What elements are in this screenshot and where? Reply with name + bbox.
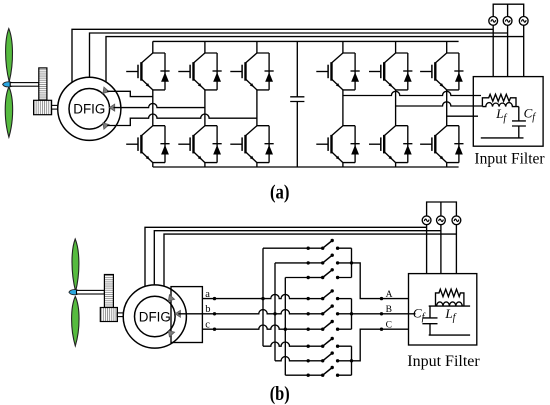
- source star bus (b): [427, 202, 457, 216]
- junction dot a-bus: [261, 297, 264, 300]
- row 9 wire: [285, 374, 351, 376]
- gearbox lower block (b): [100, 308, 117, 322]
- node dot A: [380, 297, 383, 300]
- GSC output wire 2 with hop: [396, 102, 483, 106]
- IGBT Q4: [178, 126, 221, 163]
- switch ScC: [307, 366, 340, 377]
- source feeder 1 (b): [426, 225, 428, 274]
- source feeder 2 (a): [507, 25, 509, 76]
- grid source G3 (a): [519, 17, 528, 26]
- rotor wire 3 with hops (a): [107, 114, 257, 126]
- turbine blade lower (b): [72, 297, 79, 347]
- row 6 right wire: [338, 328, 352, 330]
- switch ScA: [307, 268, 340, 279]
- node dot wire c: [213, 328, 216, 331]
- merge bar group C: [351, 346, 353, 375]
- svg-text:a: a: [205, 289, 210, 300]
- IGBT Q9: [369, 53, 412, 90]
- switch SbA: [307, 254, 340, 265]
- leg 2 wires RSC: [204, 41, 206, 167]
- filter bottom rail (b): [429, 334, 470, 336]
- IGBT Q11: [420, 53, 463, 90]
- svg-text:DFIG: DFIG: [73, 102, 105, 117]
- rotor wire b with hops (b): [178, 310, 308, 314]
- turbine hub (a): [3, 82, 14, 87]
- turbine shaft (b): [77, 290, 105, 294]
- switch SaB: [307, 289, 340, 300]
- input filter box (a): [473, 77, 543, 147]
- node dot C: [380, 328, 383, 331]
- IGBT Q3: [178, 53, 221, 90]
- source feeder 3 (b): [455, 225, 457, 274]
- node dot wire a: [213, 297, 216, 300]
- row 2 wire: [275, 262, 352, 264]
- leg 3 wires RSC: [256, 41, 258, 167]
- junction dot c-bus: [284, 328, 287, 331]
- grid phase wire 1 (a): [72, 29, 493, 82]
- generator shaft (b): [117, 313, 123, 317]
- row 4 right wire: [338, 298, 352, 300]
- filter inductor Lf (a): [482, 103, 518, 107]
- svg-text:B: B: [386, 305, 392, 315]
- grid source G1 (b): [422, 216, 431, 225]
- row 5 right wire: [338, 313, 352, 315]
- turbine shaft (a): [10, 83, 39, 87]
- junction dot merge B: [350, 312, 353, 315]
- leg 5 wires GSC: [395, 41, 397, 167]
- input filter box (b): [409, 274, 477, 345]
- row 8 wire with hop: [275, 357, 352, 361]
- rotor brush arrow 2 (a): [109, 104, 114, 111]
- switch SbB: [307, 304, 340, 315]
- IGBT Q1: [126, 53, 169, 90]
- leg 4 wires GSC: [342, 41, 344, 167]
- DC bus positive rail: [153, 40, 459, 42]
- junction dot merge C: [350, 359, 353, 362]
- svg-text:(a): (a): [270, 182, 290, 204]
- IGBT Q8: [316, 126, 359, 163]
- grid source G1 (a): [489, 17, 498, 26]
- DFIG rotor circle (a): [69, 89, 110, 130]
- IGBT Q6: [230, 126, 273, 163]
- rotor brush arrow 3 (a): [100, 121, 109, 130]
- leg 1 wires RSC: [152, 41, 154, 167]
- GSC output wire 1 with hops: [343, 91, 481, 95]
- DFIG stator circle (b): [123, 285, 186, 348]
- grid phase wire 3 (b): [164, 234, 456, 287]
- turbine blade lower (a): [5, 87, 12, 137]
- svg-text:(b): (b): [270, 383, 290, 405]
- junction dot b-bus: [273, 312, 276, 315]
- node dot B: [380, 312, 383, 315]
- svg-text:Input Filter: Input Filter: [407, 353, 480, 370]
- source feeder 1 (a): [492, 25, 494, 76]
- rotor wire 1 (a): [107, 91, 153, 96]
- filter bottom rail (a): [481, 137, 524, 139]
- rotor brush arrow 1 (b): [166, 295, 175, 304]
- output wire B: [352, 313, 416, 315]
- output wire C: [352, 329, 409, 361]
- source star bus (a): [493, 4, 524, 16]
- output wire A: [352, 263, 409, 299]
- rotor terminal box (b): [171, 287, 202, 343]
- svg-text:C: C: [386, 320, 392, 330]
- row 7 wire with hops: [263, 342, 352, 346]
- row 1 wire: [263, 247, 352, 249]
- node dot wire b: [213, 312, 216, 315]
- DFIG stator circle (a): [58, 77, 121, 140]
- svg-text:DFIG: DFIG: [139, 309, 171, 324]
- rotor brush arrow 3 (b): [166, 328, 175, 337]
- leg 6 wires GSC: [446, 41, 448, 167]
- switch SbC: [307, 351, 340, 362]
- IGBT Q10: [369, 126, 412, 163]
- filter resistor branch (b): [436, 289, 464, 306]
- GSC output wire 3: [447, 115, 478, 117]
- grid phase wire 3 (a): [106, 37, 524, 83]
- generator shaft (a): [52, 105, 58, 109]
- bus c vertical: [284, 278, 286, 376]
- bus b vertical: [274, 263, 276, 361]
- rotor wire a with hops (b): [202, 294, 308, 298]
- grid phase wire 2 (b): [154, 231, 441, 285]
- turbine blade upper (b): [72, 239, 79, 292]
- filter inductor Lf (b): [437, 302, 463, 306]
- grid phase wire 1 (b): [145, 227, 427, 286]
- svg-text:b: b: [205, 304, 210, 315]
- filter capacitor Cf (a): [512, 107, 526, 138]
- rotor wire 2 with hop (a): [114, 103, 205, 107]
- grid phase wire 2 (a): [90, 33, 508, 77]
- merge bar group A: [351, 248, 353, 277]
- DC link capacitor C: [290, 41, 304, 167]
- IGBT Q2: [126, 126, 169, 163]
- rotor brush arrow 2 (b): [175, 310, 180, 317]
- grid source G3 (b): [452, 216, 461, 225]
- turbine blade upper (a): [6, 29, 13, 82]
- IGBT Q5: [230, 53, 273, 90]
- rotor brush arrow 1 (a): [100, 87, 109, 96]
- junction dot merge A: [350, 261, 353, 264]
- switch SaA: [307, 239, 340, 250]
- row 3 wire: [285, 277, 351, 279]
- DFIG rotor circle (b): [135, 296, 176, 337]
- bus a vertical: [262, 248, 264, 346]
- source feeder 3 (a): [523, 25, 525, 76]
- IGBT Q12: [420, 126, 463, 163]
- source feeder 2 (b): [440, 225, 442, 274]
- svg-text:Input Filter: Input Filter: [474, 151, 545, 168]
- rotor wire c with hops (b): [202, 325, 308, 329]
- filter capacitor Cf (b): [422, 306, 437, 335]
- DC bus negative rail: [153, 166, 459, 168]
- turbine hub (b): [69, 290, 80, 295]
- switch SaC: [307, 337, 340, 348]
- filter resistor branch (a): [482, 94, 516, 106]
- filter main wire (b): [429, 305, 470, 307]
- svg-text:c: c: [205, 320, 210, 331]
- switch ScB: [307, 320, 340, 331]
- merge bar group B: [351, 299, 353, 330]
- gearbox upper block (b): [104, 275, 113, 308]
- IGBT Q7: [316, 53, 359, 90]
- grid source G2 (b): [437, 216, 446, 225]
- grid source G2 (a): [503, 17, 512, 26]
- svg-text:A: A: [386, 290, 393, 300]
- gearbox upper block (a): [39, 68, 47, 100]
- gearbox lower block (a): [34, 100, 52, 114]
